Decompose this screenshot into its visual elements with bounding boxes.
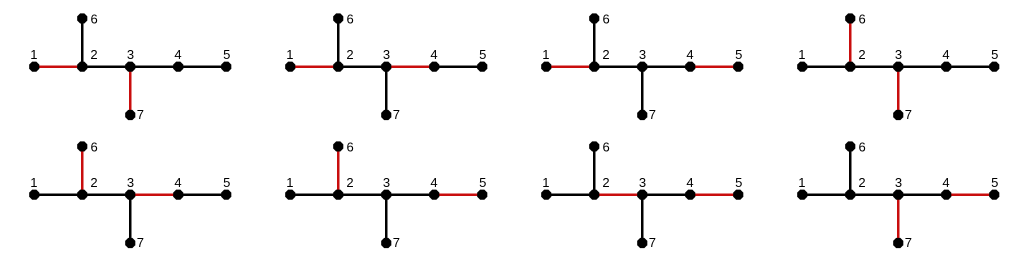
svg-text:1: 1 [542,47,549,62]
edge 4-5 [946,65,994,68]
edge 1-2 [34,193,82,196]
node 2 [589,62,599,72]
svg-text:1: 1 [798,47,805,62]
svg-text:6: 6 [602,12,609,27]
svg-text:5: 5 [735,47,742,62]
svg-text:7: 7 [393,107,400,122]
edge 4-5 highlighted red [690,65,738,68]
svg-text:4: 4 [942,47,949,62]
node 1 [285,62,295,72]
node 7 [893,110,903,120]
edge 1-2 [546,193,594,196]
svg-text:6: 6 [346,140,353,155]
svg-text:4: 4 [686,175,693,190]
edge 4-5 [434,65,482,68]
node 6 [77,141,87,151]
edge 2-6 highlighted red [81,146,84,194]
node 2 [77,62,87,72]
node 3 [125,62,135,72]
edge 3-7 [129,195,132,243]
svg-text:5: 5 [479,47,486,62]
node 7 [637,110,647,120]
node 7 [893,238,903,248]
svg-text:2: 2 [858,175,865,190]
svg-text:5: 5 [991,47,998,62]
edge 3-4 [642,193,690,196]
svg-text:3: 3 [895,175,902,190]
node 1 [285,190,295,200]
svg-text:7: 7 [905,107,912,122]
svg-text:5: 5 [991,175,998,190]
svg-text:6: 6 [90,140,97,155]
svg-text:7: 7 [137,107,144,122]
svg-text:1: 1 [798,175,805,190]
panel 2 [285,12,487,122]
edge 3-4 [898,65,946,68]
edge 3-7 [385,195,388,243]
panel 4 [797,12,999,122]
edge 2-3 [850,193,898,196]
panel 3 [541,12,743,122]
edge 3-4 highlighted red [130,193,178,196]
node 3 [381,190,391,200]
node 6 [589,13,599,23]
svg-text:1: 1 [286,47,293,62]
svg-text:1: 1 [30,47,37,62]
node 4 [429,62,439,72]
node 6 [333,141,343,151]
node 1 [541,190,551,200]
node 3 [637,62,647,72]
svg-text:1: 1 [30,175,37,190]
edge 3-4 [386,193,434,196]
node 7 [381,238,391,248]
edge 2-6 [337,18,340,66]
svg-text:4: 4 [430,47,437,62]
edge 4-5 highlighted red [946,193,994,196]
edge 3-7 highlighted red [897,67,900,115]
svg-text:3: 3 [895,47,902,62]
node 5 [221,190,231,200]
svg-text:5: 5 [223,47,230,62]
svg-text:2: 2 [90,47,97,62]
svg-text:7: 7 [649,235,656,250]
edge 1-2 [802,65,850,68]
node 5 [733,62,743,72]
svg-text:2: 2 [90,175,97,190]
edge 2-3 [850,65,898,68]
node 6 [589,141,599,151]
edge 4-5 highlighted red [690,193,738,196]
svg-text:6: 6 [858,12,865,27]
node 2 [333,190,343,200]
edge 2-6 [81,18,84,66]
edge 2-3 [82,193,130,196]
svg-text:5: 5 [735,175,742,190]
panel 1 [29,12,231,122]
svg-text:6: 6 [858,140,865,155]
edge 4-5 highlighted red [434,193,482,196]
svg-text:4: 4 [686,47,693,62]
svg-text:3: 3 [639,47,646,62]
node 1 [29,62,39,72]
edge 2-6 [593,146,596,194]
svg-text:5: 5 [223,175,230,190]
node 5 [733,190,743,200]
edge 3-7 highlighted red [897,195,900,243]
edge 4-5 [178,193,226,196]
node 4 [941,190,951,200]
svg-text:4: 4 [174,175,181,190]
edge 2-3 [338,193,386,196]
edge 1-2 highlighted red [290,65,338,68]
edge 2-6 [593,18,596,66]
node 1 [541,62,551,72]
edge 3-4 [642,65,690,68]
edge 1-2 [290,193,338,196]
svg-text:3: 3 [127,47,134,62]
svg-text:6: 6 [602,140,609,155]
svg-text:3: 3 [383,47,390,62]
edge 3-7 [641,195,644,243]
svg-text:4: 4 [430,175,437,190]
node 3 [125,190,135,200]
edge 2-6 [849,146,852,194]
svg-text:1: 1 [286,175,293,190]
svg-text:2: 2 [858,47,865,62]
node 1 [797,62,807,72]
node 6 [845,13,855,23]
node 5 [477,62,487,72]
edge 1-2 highlighted red [546,65,594,68]
node 7 [125,110,135,120]
node 1 [797,190,807,200]
node 4 [685,190,695,200]
edge 1-2 highlighted red [34,65,82,68]
svg-text:2: 2 [602,47,609,62]
node 2 [589,190,599,200]
panel 6 [285,140,487,250]
svg-text:7: 7 [905,235,912,250]
edge 3-4 highlighted red [386,65,434,68]
node 7 [381,110,391,120]
node 6 [333,13,343,23]
svg-text:1: 1 [542,175,549,190]
node 2 [77,190,87,200]
node 4 [173,62,183,72]
node 6 [77,13,87,23]
svg-text:5: 5 [479,175,486,190]
node 5 [221,62,231,72]
svg-text:2: 2 [346,175,353,190]
edge 2-6 highlighted red [849,18,852,66]
svg-text:3: 3 [383,175,390,190]
node 3 [381,62,391,72]
svg-text:4: 4 [942,175,949,190]
edge 3-4 [898,193,946,196]
svg-text:4: 4 [174,47,181,62]
node 2 [845,62,855,72]
svg-text:7: 7 [137,235,144,250]
node 2 [333,62,343,72]
node 3 [637,190,647,200]
edge 2-6 highlighted red [337,146,340,194]
panel 5 [29,140,231,250]
svg-text:2: 2 [346,47,353,62]
node 3 [893,190,903,200]
node 5 [989,190,999,200]
svg-text:3: 3 [127,175,134,190]
edge 2-3 [338,65,386,68]
node 6 [845,141,855,151]
node 7 [637,238,647,248]
node 1 [29,190,39,200]
node 7 [125,238,135,248]
edge 2-3 [594,65,642,68]
edge 2-3 highlighted red [594,193,642,196]
svg-text:6: 6 [90,12,97,27]
node 4 [685,62,695,72]
svg-text:7: 7 [649,107,656,122]
panel 8 [797,140,999,250]
edge 3-7 [641,67,644,115]
node 4 [173,190,183,200]
svg-text:6: 6 [346,12,353,27]
edge 2-3 [82,65,130,68]
edge 4-5 [178,65,226,68]
edge 1-2 [802,193,850,196]
node 4 [429,190,439,200]
node 5 [477,190,487,200]
edge 3-4 [130,65,178,68]
svg-text:7: 7 [393,235,400,250]
svg-text:2: 2 [602,175,609,190]
svg-text:3: 3 [639,175,646,190]
edge 3-7 [385,67,388,115]
edge 3-7 highlighted red [129,67,132,115]
node 4 [941,62,951,72]
node 3 [893,62,903,72]
node 5 [989,62,999,72]
node 2 [845,190,855,200]
panel 7 [541,140,743,250]
